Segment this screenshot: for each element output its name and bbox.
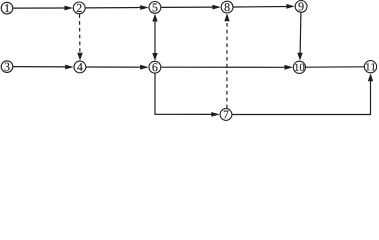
label 9 <box>298 2 303 10</box>
node 1 <box>1 2 13 14</box>
label 11 <box>366 63 370 70</box>
label 6 <box>152 63 157 71</box>
label 1 <box>5 4 9 12</box>
wire 10-11 <box>306 66 364 68</box>
label 5 <box>153 3 158 11</box>
label 8 <box>225 3 230 11</box>
wire 5-8 <box>161 6 213 8</box>
node 3 <box>1 61 13 73</box>
label 10 <box>295 64 299 71</box>
dashed dummy wire 2-4 <box>79 14 81 54</box>
wire 7-11 elbow <box>232 80 370 115</box>
arrowhead into node 4 top <box>77 53 82 61</box>
arrowhead into node 10 <box>285 65 294 70</box>
wire 4-6 <box>86 66 141 68</box>
arrowhead into node 6 <box>140 65 149 70</box>
wire 8-9 <box>233 6 287 9</box>
wire 6-10 <box>161 66 285 68</box>
arrowhead into node 9 <box>286 4 295 9</box>
wire 3-4 <box>13 66 66 68</box>
node 8 <box>221 1 233 13</box>
arrowhead into node 5 <box>140 5 149 10</box>
node 11 <box>364 61 376 73</box>
arrowhead into node 2 <box>65 6 74 11</box>
arrowhead into node 4 <box>65 65 74 70</box>
wire 6-7 elbow <box>155 73 213 114</box>
dashed dummy wire 7-8 <box>226 20 228 108</box>
node 7 <box>220 109 232 121</box>
arrowhead down into node 10 <box>297 53 302 61</box>
label 7 <box>224 111 229 119</box>
node 9 <box>295 1 307 13</box>
arrowhead up into node 8 <box>224 13 229 21</box>
label 2 <box>77 4 82 12</box>
arrowhead down into node 6 <box>152 53 157 61</box>
arrowhead up into node 11 <box>368 73 373 81</box>
arrowhead into node 7 <box>211 112 220 117</box>
wire 2-5 <box>86 7 142 9</box>
label 3 <box>5 63 10 71</box>
node 4 <box>74 61 86 73</box>
label 4 <box>77 63 83 71</box>
node 5 <box>149 2 161 14</box>
node 2 <box>73 2 85 14</box>
wire 1-2 <box>13 7 66 9</box>
arrowhead up into node 5 <box>152 14 157 22</box>
double arrow wire 5-6 <box>154 20 156 55</box>
wire 9-10 <box>299 13 302 54</box>
arrowhead into node 8 <box>212 5 221 10</box>
node 6 <box>149 61 161 73</box>
node 10 <box>293 61 305 73</box>
